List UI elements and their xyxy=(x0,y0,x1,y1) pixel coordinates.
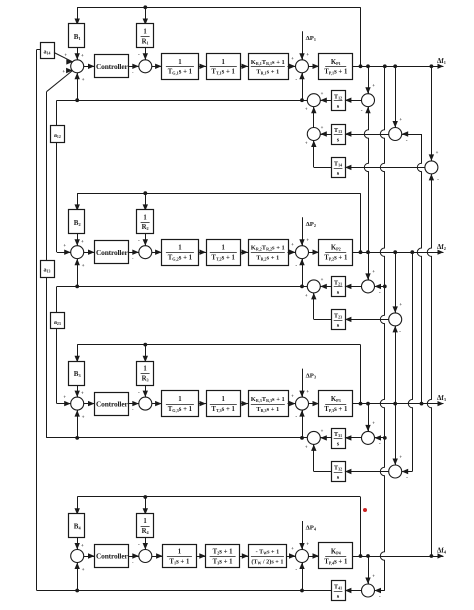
wire f3 into junction f3-f2 xyxy=(395,404,397,465)
wire area1 droop feedback top line xyxy=(77,7,360,9)
svg-text:-: - xyxy=(379,441,381,447)
svg-text:+: + xyxy=(399,118,402,123)
wire 1/R4 to summer xyxy=(145,538,147,550)
block governor 1/(TG2s+1) xyxy=(162,240,199,266)
wire hydro turbine to summer3 area4 xyxy=(287,556,296,558)
svg-text:+: + xyxy=(82,77,85,83)
wire f1 into junction xyxy=(368,66,370,93)
svg-text:T13: T13 xyxy=(334,127,342,134)
wire summer3 to power system block area1 xyxy=(309,66,320,68)
wire B4 feed xyxy=(77,497,79,514)
wire dPtie1 down through a12 to ACE2 xyxy=(56,100,58,252)
svg-text:+: + xyxy=(81,543,84,549)
block power system KP2/(TP2s+1) xyxy=(319,240,353,266)
block governor 1/(TG3s+1) xyxy=(162,391,199,417)
svg-text:T23: T23 xyxy=(334,313,342,320)
node df2 tap x=395 xyxy=(393,250,397,254)
block coefficient a14 xyxy=(41,43,55,59)
block tie-line T{14}/s xyxy=(332,158,346,178)
wire f1 into junction f1-f3 xyxy=(395,66,397,127)
block hydro turbine (-TWs+1)/((TW/2)s+1) xyxy=(249,545,287,568)
difference junction f1-f4 xyxy=(425,161,438,174)
summing junction ACE area1 xyxy=(71,60,84,73)
svg-text:+: + xyxy=(372,422,375,427)
wire f1 bus into junction f2-f1 xyxy=(375,286,385,288)
wire governor to turbine area2 xyxy=(198,252,206,254)
wire T32 row up into chain xyxy=(313,444,315,471)
wire frequency deviation line area3 xyxy=(353,403,444,405)
node df1 top feedback tap xyxy=(359,64,363,68)
wire turbine to reheat area2 xyxy=(241,252,249,254)
svg-text:+: + xyxy=(306,389,309,395)
svg-text:T31: T31 xyxy=(334,431,342,438)
svg-text:TT,2s + 1: TT,2s + 1 xyxy=(211,255,235,262)
load disturbance dP1 input xyxy=(302,31,304,60)
svg-text:1: 1 xyxy=(221,59,225,66)
block reheat (KR3TR3s+1)/(TR3s+1) xyxy=(249,391,289,417)
svg-text:TT,3s + 1: TT,3s + 1 xyxy=(211,406,235,413)
wire governor to turbine area1 xyxy=(198,66,206,68)
load disturbance dP3 input xyxy=(302,369,304,398)
svg-text:T2s + 1: T2s + 1 xyxy=(213,549,234,556)
svg-text:T32: T32 xyxy=(334,465,342,472)
block B1 frequency bias xyxy=(69,24,85,48)
block tie-line T{32}/s xyxy=(332,462,346,482)
wire 1/R2 to summer xyxy=(145,234,147,246)
svg-text:-: - xyxy=(138,52,140,58)
svg-text:KR,3TR,3s + 1: KR,3TR,3s + 1 xyxy=(251,396,285,403)
svg-text:TP,4s + 1: TP,4s + 1 xyxy=(324,558,348,565)
wire junction f3-f1 to T31 xyxy=(345,437,362,439)
svg-text:T14: T14 xyxy=(334,161,342,168)
svg-text:+: + xyxy=(81,239,84,245)
block power system KP4/(TP4s+1) xyxy=(319,543,353,569)
wire dPtie4 feedback up left side to a14 xyxy=(36,50,38,591)
wire 1/R3 to summer xyxy=(145,385,147,397)
summing junction tie chain L2 area1 xyxy=(307,128,320,141)
svg-text:1: 1 xyxy=(178,59,182,66)
wire to droop compensation block xyxy=(196,556,206,558)
svg-text:+: + xyxy=(372,574,375,579)
wire f3 into junction f3-f1 xyxy=(368,404,370,432)
wire reheat to summer3 area2 xyxy=(288,252,296,254)
svg-text:+: + xyxy=(81,53,84,59)
summing junction tie chain L1 area1 xyxy=(307,94,320,107)
block power system KP1/(TP1s+1) xyxy=(319,54,353,80)
node dPtie4 to S3 area4 xyxy=(300,589,304,593)
svg-text:+: + xyxy=(63,395,66,400)
svg-text:+: + xyxy=(305,108,308,113)
wire summer2 to hydro governor area4 xyxy=(152,556,163,558)
summing junction governor input area2 xyxy=(139,246,152,259)
wire controller1 to summer 2 xyxy=(129,66,139,68)
node dPtie3 to S3 area3 xyxy=(300,436,304,440)
svg-text:R1: R1 xyxy=(142,38,149,45)
node area2 top line to 1/R2 xyxy=(143,191,147,195)
wire T23 row up into chain xyxy=(313,293,315,320)
summing junction governor input area3 xyxy=(139,397,152,410)
block turbine 1/(TT3s+1) xyxy=(207,391,241,417)
node df2 tap x=368 xyxy=(366,250,370,254)
svg-text:T12: T12 xyxy=(334,93,342,100)
node dPtie3 to ACE3 xyxy=(75,436,79,440)
wire frequency deviation line area2 xyxy=(353,252,444,254)
svg-text:KR,1TR,1s + 1: KR,1TR,1s + 1 xyxy=(251,59,285,66)
wire f4 riser into junction f1-f4 xyxy=(427,174,431,556)
node dPtie4 to ACE4 xyxy=(75,589,79,593)
svg-text:TR,3s + 1: TR,3s + 1 xyxy=(256,406,279,413)
difference junction f3-f2 xyxy=(389,465,402,478)
block tie-line T{13}/s xyxy=(332,125,346,145)
summing junction ACE area2 xyxy=(71,246,84,259)
svg-text:+: + xyxy=(82,567,85,573)
svg-text:R4: R4 xyxy=(142,528,150,535)
wire summer3 to power system block area4 xyxy=(309,556,320,558)
svg-text:R3: R3 xyxy=(142,376,149,383)
svg-text:TP,1s + 1: TP,1s + 1 xyxy=(324,69,348,76)
svg-text:-: - xyxy=(295,414,297,420)
wire dPtie3 row to area3 xyxy=(47,437,308,439)
svg-text:+: + xyxy=(81,390,84,396)
wire summer3 to power system block area3 xyxy=(309,403,320,405)
wire summer2 to governor block area1 xyxy=(152,66,162,68)
wire T14 row up into L2 xyxy=(313,141,315,168)
difference junction f1-f2 xyxy=(362,94,375,107)
svg-text:+: + xyxy=(291,547,294,552)
summing junction tie chain area3 xyxy=(307,431,320,444)
node df1 tap x=385 xyxy=(383,64,387,68)
wire f2 into junction f2-f1 xyxy=(368,252,370,280)
wire controller4 to summer 2 xyxy=(129,556,139,558)
wire f2 bus into junction f3-f2 xyxy=(408,252,412,471)
wire 1/R4 feed xyxy=(145,497,147,514)
wire junction f2-f3 to T23 xyxy=(345,319,389,321)
summing junction governor input area1 xyxy=(139,60,152,73)
summing junction generation-load area3 xyxy=(296,397,309,410)
wire summer to controller1 xyxy=(84,66,95,68)
wire T32 output to chain elbow xyxy=(314,471,331,473)
wire f2 up into junction xyxy=(364,107,368,253)
svg-text:1: 1 xyxy=(178,245,182,252)
wire frequency deviation line area4 xyxy=(353,556,444,558)
svg-text:KP2: KP2 xyxy=(331,245,341,252)
wire controller3 to summer 2 xyxy=(129,403,139,405)
svg-text:- TWs + 1: - TWs + 1 xyxy=(256,549,280,556)
block transient droop (T2s+1)/(T3s+1) xyxy=(206,545,240,568)
difference junction f2-f3 xyxy=(389,313,402,326)
wire T21 to chain junction xyxy=(320,286,331,288)
block 1/R4 governor droop xyxy=(137,514,154,538)
block 1/R3 governor droop xyxy=(137,362,154,386)
wire junction f1-f4 to T14 xyxy=(345,167,425,169)
svg-text:+: + xyxy=(321,126,324,131)
wire turbine to reheat area1 xyxy=(241,66,249,68)
node area4 top line to 1/R4 xyxy=(143,495,147,499)
block governor 1/(TG1s+1) xyxy=(162,54,199,80)
svg-text:KP1: KP1 xyxy=(331,59,341,66)
wire f3 up into junction f2-f3 xyxy=(395,326,397,404)
block coefficient a12 xyxy=(51,126,65,143)
wire controller2 to summer 2 xyxy=(129,252,139,254)
node df4 top feedback tap xyxy=(359,554,363,558)
red marker dot xyxy=(363,508,367,512)
svg-text:KP3: KP3 xyxy=(331,396,341,403)
wire junction f1-f2 to T12 xyxy=(345,100,362,102)
wire dPtie3 feedback up left side through a13 xyxy=(46,92,48,438)
node df3 tap x=422 xyxy=(420,402,424,406)
block hydro governor 1/(T1s+1) xyxy=(163,545,197,568)
svg-text:1: 1 xyxy=(143,366,147,373)
difference junction f2-f1 xyxy=(362,280,375,293)
wire chain L2 to L1 xyxy=(313,107,315,128)
wire area2 droop feedback top line xyxy=(77,193,360,195)
svg-text:+: + xyxy=(321,430,324,435)
wire T23 output to chain elbow xyxy=(314,319,331,321)
node dPtie1 to ACE1 xyxy=(75,98,79,102)
svg-text:TG,1s + 1: TG,1s + 1 xyxy=(168,69,193,76)
wire B3 to summer xyxy=(77,385,79,397)
wire summer2 to governor block area3 xyxy=(152,403,162,405)
block coefficient a13 xyxy=(41,261,55,278)
svg-text:+: + xyxy=(372,84,375,89)
node df2 top feedback tap xyxy=(359,250,363,254)
svg-text:+: + xyxy=(306,238,309,244)
difference junction f1-f3 xyxy=(389,128,402,141)
svg-text:TT,1s + 1: TT,1s + 1 xyxy=(211,69,235,76)
block Controller area1 xyxy=(95,55,129,78)
svg-text:-: - xyxy=(437,176,439,182)
svg-text:KR,2TR,2s + 1: KR,2TR,2s + 1 xyxy=(251,245,285,252)
load disturbance dP4 input xyxy=(302,521,304,550)
svg-text:ΔP3: ΔP3 xyxy=(306,372,316,379)
node area3 top line to 1/R3 xyxy=(143,343,147,347)
wire summer to controller3 xyxy=(84,403,95,405)
node df1 tap x=431 xyxy=(430,64,434,68)
svg-text:+: + xyxy=(291,57,294,62)
svg-text:Controller: Controller xyxy=(96,248,128,257)
wire area3 droop feedback top line xyxy=(77,344,360,346)
node df3 tap x=368 xyxy=(366,402,370,406)
svg-text:+: + xyxy=(399,455,402,460)
block B4 frequency bias xyxy=(69,514,85,538)
block turbine 1/(TT1s+1) xyxy=(207,54,241,80)
load disturbance dP2 input xyxy=(302,217,304,246)
svg-text:+: + xyxy=(291,394,294,399)
wire a13 path diagonal into ACE1 summer xyxy=(47,71,73,92)
svg-text:-: - xyxy=(138,389,140,395)
difference junction f3-f1 xyxy=(362,431,375,444)
svg-text:-: - xyxy=(138,542,140,548)
node df4 tap x=368 xyxy=(366,554,370,558)
svg-text:+: + xyxy=(305,142,308,147)
wire 1/R1 feed xyxy=(145,7,147,24)
node dPtie2 to ACE2 xyxy=(75,285,79,289)
svg-text:+: + xyxy=(372,270,375,275)
wire reheat to summer3 area1 xyxy=(288,66,296,68)
svg-text:+: + xyxy=(306,542,309,548)
svg-text:1: 1 xyxy=(221,396,225,403)
svg-text:T21: T21 xyxy=(334,280,342,287)
block reheat (KR2TR2s+1)/(TR2s+1) xyxy=(249,240,289,266)
svg-text:-: - xyxy=(295,263,297,269)
summing junction tie chain area2 xyxy=(307,280,320,293)
block B2 frequency bias xyxy=(69,210,85,234)
svg-text:+: + xyxy=(291,243,294,248)
wire B3 feed xyxy=(77,345,79,362)
block tie-line T{23}/s xyxy=(332,310,346,330)
wire reheat to summer3 area3 xyxy=(288,403,296,405)
wire B1 feed xyxy=(77,7,79,24)
wire f1 bus down right column xyxy=(380,66,384,590)
svg-text:+: + xyxy=(305,445,308,450)
svg-text:-: - xyxy=(138,238,140,244)
wire T14 output to chain elbow xyxy=(314,167,331,169)
node df1 tap x=395 xyxy=(393,64,397,68)
wire a14 to ACE1 summer xyxy=(54,53,73,62)
svg-text:+: + xyxy=(62,70,65,75)
wire dPtie2 row to area2 xyxy=(57,286,307,288)
wire f2 into junction f2-f3 xyxy=(395,252,397,313)
svg-text:KP4: KP4 xyxy=(331,549,342,556)
svg-text:T41: T41 xyxy=(334,584,342,591)
wire 1/R2 feed xyxy=(145,193,147,210)
node df1 tap x=368 xyxy=(366,64,370,68)
block Controller area3 xyxy=(95,393,129,416)
svg-text:TR,1s + 1: TR,1s + 1 xyxy=(256,69,279,76)
wire summer3 to power system block area2 xyxy=(309,252,320,254)
wire B1 to summer xyxy=(77,48,79,60)
svg-text:1: 1 xyxy=(178,549,182,556)
wire junction f2-f1 to T21 xyxy=(345,286,362,288)
wire f1 bus into junction f3-f1 xyxy=(375,437,385,439)
svg-text:T1s + 1: T1s + 1 xyxy=(169,558,190,565)
svg-text:TP,2s + 1: TP,2s + 1 xyxy=(324,255,348,262)
block Controller area2 xyxy=(95,241,129,264)
difference junction f4-f1 xyxy=(362,584,375,597)
summing junction generation-load area1 xyxy=(296,60,309,73)
node f1 bus at f2-f1 junction xyxy=(383,285,387,289)
node df4 tap x=431 xyxy=(430,554,434,558)
svg-text:+: + xyxy=(82,414,85,420)
svg-text:1: 1 xyxy=(143,28,147,35)
wire f4 into junction f4-f1 xyxy=(368,556,370,584)
wire junction f1-f3 to T13 xyxy=(345,134,389,136)
svg-text:+: + xyxy=(63,244,66,249)
svg-text:+: + xyxy=(321,92,324,97)
wire dPtie1 row to area1 xyxy=(57,100,307,102)
svg-text:ΔP4: ΔP4 xyxy=(306,525,316,532)
wire T12 to L1 xyxy=(320,100,331,102)
wire dPtie2 down through a23 to ACE3 xyxy=(56,286,58,403)
wire summer to controller2 xyxy=(84,252,95,254)
svg-text:-: - xyxy=(379,290,381,296)
summing junction governor input area4 xyxy=(139,550,152,563)
svg-text:-: - xyxy=(295,77,297,83)
block 1/R1 governor droop xyxy=(137,24,154,48)
svg-text:TG,2s + 1: TG,2s + 1 xyxy=(168,255,193,262)
summing junction ACE area4 xyxy=(71,550,84,563)
svg-text:+: + xyxy=(436,151,439,156)
block turbine 1/(TT2s+1) xyxy=(207,240,241,266)
block tie-line T{12}/s xyxy=(332,91,346,111)
block tie-line T{41}/s xyxy=(332,581,346,601)
node df2 tap x=412 xyxy=(410,250,414,254)
summing junction generation-load area2 xyxy=(296,246,309,259)
svg-text:TR,2s + 1: TR,2s + 1 xyxy=(256,255,279,262)
svg-text:-: - xyxy=(406,138,408,144)
block tie-line T{31}/s xyxy=(332,429,346,449)
svg-text:(TW / 2)s + 1: (TW / 2)s + 1 xyxy=(251,558,283,565)
wire junction f3-f2 to T32 xyxy=(345,471,389,473)
svg-text:-: - xyxy=(406,475,408,481)
wire B4 to summer xyxy=(77,538,79,550)
wire governor to turbine area3 xyxy=(198,403,206,405)
wire T13 to L2 xyxy=(320,134,331,136)
node dPtie2 to S3 area2 xyxy=(300,285,304,289)
svg-text:Controller: Controller xyxy=(96,552,128,561)
wire f1 into junction f1-f4 xyxy=(431,66,433,161)
svg-text:TG,3s + 1: TG,3s + 1 xyxy=(168,406,193,413)
svg-text:1: 1 xyxy=(143,518,147,525)
wire summer to controller4 xyxy=(84,556,95,558)
block 1/R2 governor droop xyxy=(137,210,154,234)
svg-text:1: 1 xyxy=(178,396,182,403)
svg-text:+: + xyxy=(305,294,308,299)
block reheat (KR1TR1s+1)/(TR1s+1) xyxy=(249,54,289,80)
block tie-line T{21}/s xyxy=(332,277,346,297)
svg-text:-: - xyxy=(361,108,363,114)
wire 1/R1 to summer xyxy=(145,48,147,60)
svg-text:+: + xyxy=(64,53,67,58)
block Controller area4 xyxy=(95,545,129,568)
wire junction f4-f1 to T41 xyxy=(345,590,362,592)
wire to water turbine block xyxy=(239,556,248,558)
svg-text:+: + xyxy=(321,278,324,283)
wire 1/R3 feed xyxy=(145,345,147,362)
svg-text:R2: R2 xyxy=(142,224,149,231)
wire f1 bus elbow into junction f4-f1 xyxy=(375,590,385,592)
wire T31 to chain junction xyxy=(320,437,331,439)
wire dPtie4 row to area4 xyxy=(37,590,332,592)
svg-text:+: + xyxy=(306,52,309,58)
block B3 frequency bias xyxy=(69,362,85,386)
svg-text:+: + xyxy=(82,263,85,269)
block power system KP3/(TP3s+1) xyxy=(319,391,353,417)
svg-text:1: 1 xyxy=(143,214,147,221)
wire frequency deviation line area1 xyxy=(353,66,444,68)
svg-text:-: - xyxy=(295,567,297,573)
svg-text:-: - xyxy=(379,594,381,600)
svg-text:ΔP2: ΔP2 xyxy=(306,221,316,228)
wire turbine to reheat area3 xyxy=(241,403,249,405)
wire area4 droop feedback top line xyxy=(77,496,360,498)
node f1 bus at f3-f1 junction xyxy=(383,436,387,440)
summing junction ACE area3 xyxy=(71,397,84,410)
node df3 top feedback tap xyxy=(359,402,363,406)
wire B2 feed xyxy=(77,193,79,210)
wire summer2 to governor block area2 xyxy=(152,252,162,254)
svg-text:+: + xyxy=(399,303,402,308)
node dPtie1 to S3 xyxy=(300,98,304,102)
summing junction generation-load area4 xyxy=(296,550,309,563)
svg-text:TP,3s + 1: TP,3s + 1 xyxy=(324,406,348,413)
wire B2 to summer xyxy=(77,234,79,246)
svg-text:1: 1 xyxy=(221,245,225,252)
block coefficient a23 xyxy=(51,313,65,329)
svg-text:Controller: Controller xyxy=(96,62,128,71)
wire f3 riser into junction f1-f3 xyxy=(417,134,421,404)
svg-text:T3s + 1: T3s + 1 xyxy=(213,558,234,565)
